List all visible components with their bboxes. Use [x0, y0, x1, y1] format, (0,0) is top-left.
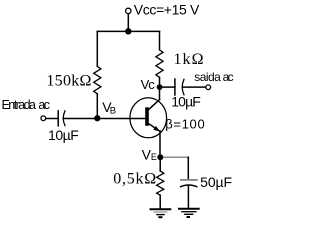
svg-text:1kΩ: 1kΩ [174, 51, 204, 68]
svg-text:saida: saida [194, 70, 221, 84]
svg-text:β=100: β=100 [165, 117, 205, 132]
svg-text:Vcc=+15 V: Vcc=+15 V [134, 2, 200, 18]
svg-text:10µF: 10µF [171, 94, 201, 110]
svg-text:Entrada: Entrada [2, 98, 37, 112]
svg-text:ac: ac [223, 70, 234, 84]
svg-text:10µF: 10µF [48, 127, 79, 143]
svg-text:E: E [151, 152, 157, 162]
svg-text:Vc: Vc [141, 77, 156, 92]
svg-text:150kΩ: 150kΩ [46, 73, 91, 90]
svg-text:B: B [110, 105, 116, 116]
svg-text:0,5kΩ: 0,5kΩ [113, 170, 156, 187]
svg-text:ac: ac [38, 98, 50, 112]
svg-text:50µF: 50µF [200, 174, 232, 190]
